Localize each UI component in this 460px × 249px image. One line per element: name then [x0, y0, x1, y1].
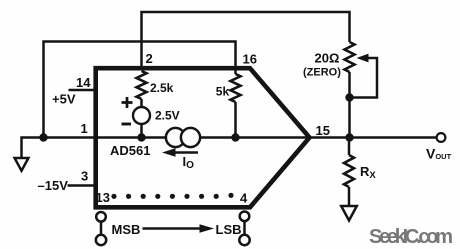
- ground (left): [15, 158, 29, 171]
- svg-text:IO: IO: [183, 154, 195, 171]
- wire pin 3 stub (-15V): [68, 184, 95, 187]
- polarity plus: [122, 97, 133, 108]
- node junction left rail: [39, 133, 47, 141]
- svg-text:4: 4: [240, 191, 248, 206]
- wire output pin15 to VOUT: [308, 136, 437, 139]
- bottom pin dots row: [111, 193, 233, 199]
- wire pin 1 to ground: [22, 138, 96, 159]
- svg-text:(ZERO): (ZERO): [303, 67, 341, 79]
- terminal VOUT: [437, 133, 446, 142]
- ground (below Rx): [341, 206, 357, 221]
- current arrow Io: [172, 151, 198, 154]
- svg-text:3: 3: [81, 169, 88, 184]
- voltage source 2.5V: [140, 99, 143, 138]
- svg-text:14: 14: [76, 75, 91, 90]
- polarity minus: [122, 123, 132, 126]
- wire internal centerline pin1 to pin15: [95, 136, 308, 139]
- node junction 5k: [231, 133, 239, 141]
- svg-text:2.5V: 2.5V: [155, 109, 180, 123]
- svg-text:13: 13: [96, 190, 110, 205]
- svg-text:1: 1: [81, 121, 88, 136]
- svg-text:–15V: –15V: [38, 178, 69, 193]
- wire top rail pin2 to pot: [142, 12, 350, 67]
- op-amp U1 AD561 DAC body: [96, 68, 310, 207]
- arrow MSB to LSB: [143, 227, 202, 230]
- current source Io circles: [166, 128, 185, 147]
- svg-text:MSB: MSB: [112, 222, 141, 237]
- node junction wiper: [345, 93, 353, 101]
- svg-text:5k: 5k: [216, 85, 230, 99]
- node junction output: [345, 133, 353, 141]
- resistor 2.5k: [137, 71, 147, 99]
- resistor 5k: [234, 70, 237, 138]
- svg-text:15: 15: [316, 123, 330, 138]
- svg-text:2: 2: [146, 51, 153, 66]
- wire pin 14 stub (+5V): [69, 89, 95, 92]
- resistor Rx: [348, 138, 351, 207]
- terminal LSB pin 4: [240, 212, 250, 222]
- wire ground rail to pin16: [44, 42, 236, 138]
- pot wiper arm: [350, 58, 378, 98]
- svg-text:20Ω: 20Ω: [315, 51, 340, 66]
- svg-text:16: 16: [243, 52, 257, 67]
- svg-text:RX: RX: [360, 164, 376, 181]
- svg-text:VOUT: VOUT: [426, 146, 452, 162]
- svg-text:AD561: AD561: [110, 143, 150, 158]
- svg-text:SeekIC.com: SeekIC.com: [369, 226, 453, 248]
- svg-text:LSB: LSB: [216, 222, 242, 237]
- potentiometer 20 ohm ZERO: [345, 42, 355, 72]
- svg-text:2.5k: 2.5k: [150, 81, 174, 95]
- terminal MSB pin 13: [96, 212, 106, 222]
- node junction 2.5V source: [137, 133, 145, 141]
- svg-text:+5V: +5V: [52, 92, 76, 107]
